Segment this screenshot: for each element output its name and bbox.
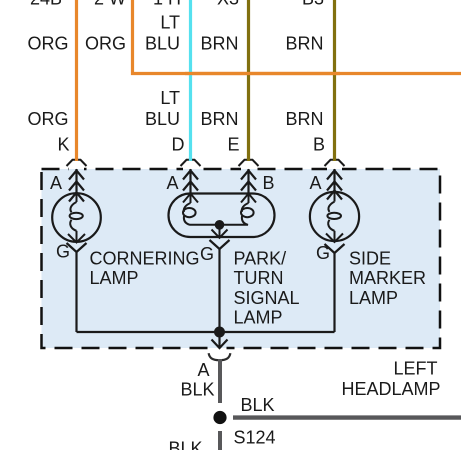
svg-text:CORNERING: CORNERING — [90, 248, 200, 268]
svg-text:ORG: ORG — [27, 109, 68, 129]
wire colour labels row 2 — [27, 88, 323, 129]
park/turn filament 2 (BRN side) — [220, 194, 257, 225]
ground wire from side marker lamp — [333, 253, 335, 332]
svg-text:B: B — [313, 135, 325, 155]
svg-text:B3: B3 — [302, 0, 324, 9]
lamp name: CORNERING LAMP — [90, 248, 200, 288]
svg-text:B: B — [262, 173, 274, 193]
svg-text:LAMP: LAMP — [90, 268, 139, 288]
svg-text:G: G — [56, 242, 70, 262]
wire BRN #1 (vertical, pin E) — [247, 0, 250, 161]
svg-text:LT: LT — [160, 88, 180, 108]
connector arc at pin K — [67, 160, 87, 166]
side marker filament — [326, 191, 343, 243]
svg-text:LAMP: LAMP — [234, 308, 283, 328]
svg-text:BLK: BLK — [241, 395, 275, 415]
side marker lamp circle — [310, 192, 359, 241]
ground wire from cornering lamp — [75, 252, 77, 332]
wire BRN #2 (vertical, pin B) — [333, 0, 336, 161]
svg-text:BLU: BLU — [145, 34, 180, 54]
svg-text:BRN: BRN — [285, 34, 323, 54]
cornering lamp input wire + chevrons — [69, 169, 84, 202]
park/turn internal junction dot — [215, 220, 225, 230]
park/turn internal down arrow — [212, 225, 228, 238]
svg-text:E: E — [227, 135, 239, 155]
ground bus wire — [77, 331, 335, 333]
svg-text:A: A — [166, 173, 178, 193]
svg-text:LT: LT — [160, 13, 180, 33]
cornering lamp filament — [68, 193, 85, 243]
svg-text:A: A — [50, 173, 62, 193]
splice S124 dot — [213, 411, 226, 424]
svg-text:LEFT: LEFT — [393, 359, 437, 379]
cut-off pin labels at top edge — [30, 0, 324, 9]
svg-text:A: A — [309, 173, 321, 193]
svg-text:PARK/: PARK/ — [234, 248, 287, 268]
left headlamp assembly dashed box — [42, 169, 441, 348]
svg-text:G: G — [200, 244, 214, 264]
svg-text:MARKER: MARKER — [349, 268, 426, 288]
svg-text:TURN: TURN — [234, 268, 284, 288]
svg-text:BLK: BLK — [168, 438, 202, 450]
BLK ground wire down to S124 — [218, 359, 222, 403]
svg-text:ORG: ORG — [27, 34, 68, 54]
svg-text:2 W: 2 W — [94, 0, 126, 9]
svg-text:BRN: BRN — [200, 34, 238, 54]
BLK wire to right edge — [233, 415, 461, 419]
svg-text:LAMP: LAMP — [349, 288, 398, 308]
svg-text:24B: 24B — [30, 0, 62, 9]
svg-text:ORG: ORG — [85, 34, 126, 54]
cornering lamp circle — [52, 193, 101, 242]
connector arc at pin E — [239, 160, 259, 166]
side marker lamp input wire + chevrons — [327, 169, 342, 200]
park/turn output V connector — [210, 240, 230, 249]
svg-text:SIGNAL: SIGNAL — [234, 288, 300, 308]
connector pin letters K D E B — [57, 135, 325, 155]
svg-text:SIDE: SIDE — [349, 248, 391, 268]
svg-text:BRN: BRN — [200, 109, 238, 129]
cornering lamp output V connector — [67, 243, 87, 252]
lamp name: SIDE MARKER LAMP — [349, 248, 426, 308]
connector arc at pin B — [325, 160, 345, 166]
crossing patch: orange over verticals — [185, 72, 340, 75]
ground exit wire + arrow — [212, 332, 228, 348]
wire ORG #1 (vertical, pin K) — [75, 0, 78, 161]
connector cup below box (pin A) — [209, 353, 231, 360]
dash gaps where wires cross box edge — [69, 166, 342, 351]
svg-text:1 H: 1 H — [153, 0, 181, 9]
svg-text:X3: X3 — [217, 0, 239, 9]
svg-text:D: D — [172, 135, 185, 155]
svg-text:BRN: BRN — [285, 109, 323, 129]
svg-text:K: K — [57, 135, 69, 155]
svg-text:BLU: BLU — [145, 109, 180, 129]
park/turn lamp input wires + chevrons — [183, 169, 256, 194]
svg-text:A: A — [197, 360, 209, 380]
svg-text:BLK: BLK — [180, 380, 214, 400]
label LEFT HEADLAMP — [341, 359, 440, 399]
svg-text:HEADLAMP: HEADLAMP — [341, 379, 440, 399]
svg-text:S124: S124 — [234, 428, 276, 448]
BLK wire continuing below — [218, 431, 222, 450]
park/turn lamp stadium body — [169, 194, 275, 238]
ground bus junction dot — [214, 327, 225, 338]
wire LT BLU (vertical, pin D) — [189, 0, 192, 161]
connector arc at pin D — [181, 160, 201, 166]
wire ORG #2 (vertical then horizontal to right edge) — [133, 0, 461, 74]
side marker output V connector — [325, 244, 345, 253]
park/turn filament 1 (LT BLU side) — [183, 194, 220, 225]
ground wire from park/turn lamp — [218, 249, 220, 332]
wire colour labels row 1 — [27, 13, 323, 54]
lamp name: PARK/TURN SIGNAL LAMP — [234, 248, 300, 327]
svg-text:G: G — [316, 243, 330, 263]
